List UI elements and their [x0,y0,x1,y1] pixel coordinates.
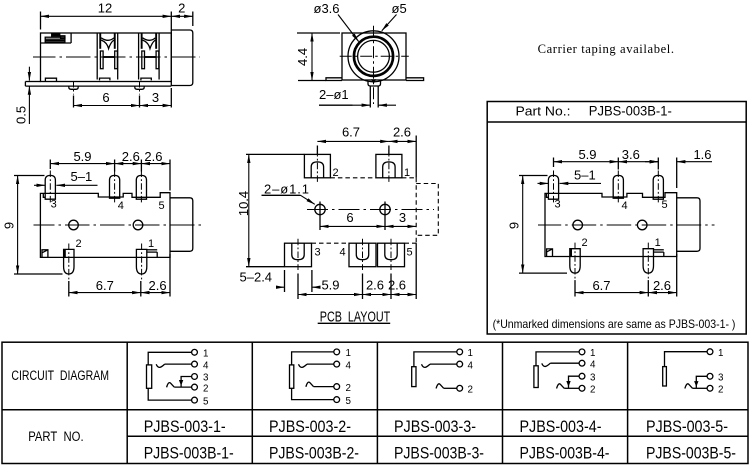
terminal 3 D1 [192,374,198,380]
svg-text:PJBS-003B-4-: PJBS-003B-4- [520,444,610,463]
crosshair centerlines [340,55,409,57]
part number box [487,102,746,335]
centerline [34,224,202,226]
bottom tab [45,78,56,81]
wire t4 D1 [165,363,192,365]
svg-text:12: 12 [98,1,112,16]
svg-text:PJBS-003B-5-: PJBS-003B-5- [646,444,736,463]
svg-text:1: 1 [148,238,154,250]
hole right [637,220,647,230]
wire t4 D4 [550,362,579,364]
wire t1 D5 [665,352,708,367]
svg-text:3: 3 [152,90,159,105]
hole left [573,220,583,230]
svg-text:5.9: 5.9 [73,149,91,164]
pin 3 [548,171,560,211]
dimension 2.6 bottom a [363,274,392,300]
svg-text:9: 9 [2,222,17,229]
dimension 2.6 b [141,149,170,191]
jack sleeve D1 [147,365,152,388]
svg-text:4: 4 [346,360,352,371]
dimension 5.9 [50,149,114,172]
svg-text:2: 2 [203,383,208,394]
contact t2 D5 [685,384,693,389]
svg-text:2: 2 [333,167,339,179]
wire t1 D3 [414,352,457,367]
wire t4 D3 [430,363,457,365]
terminal 1 D4 [579,349,585,355]
barrel outer circle [348,31,399,82]
dimension 6.7 [575,278,648,297]
barrel (side view) [171,30,193,86]
pin 5 [136,171,164,213]
contact arrow D1 [179,380,183,386]
centerline [33,56,200,58]
svg-text:0.5: 0.5 [14,106,29,124]
svg-text:PJBS-003B-3-: PJBS-003B-3- [394,444,484,463]
contact t4 D4 [542,363,551,366]
dimension 0.5 [14,67,30,124]
corner step at pin 3 B [546,193,548,197]
svg-text:2: 2 [590,385,595,396]
svg-text:2: 2 [346,383,351,394]
svg-text:PJBS-003-5-: PJBS-003-5- [646,417,728,436]
terminal 2 D3 [457,385,463,391]
connector body (side view) [41,33,172,82]
dimension 6.7 [69,278,141,297]
contact t4 D1 [156,364,165,367]
pin 2 [64,238,82,281]
svg-text:2.6: 2.6 [122,149,140,164]
svg-text:2.6: 2.6 [366,278,384,293]
dashed outline bottom [312,242,350,244]
pin 1 [136,238,157,281]
svg-text:PJBS-003-2-: PJBS-003-2- [269,417,351,436]
dimension 12 [41,1,172,30]
svg-text:3: 3 [554,199,560,211]
wire t2 D4 [564,387,579,389]
terminal 1 D5 [707,349,713,355]
terminal 2 D1 [192,384,198,390]
svg-text:1: 1 [468,348,473,359]
terminal 5 D1 [192,397,198,403]
centerline [538,224,715,226]
svg-text:PJBS-003-3-: PJBS-003-3- [394,417,476,436]
svg-text:4: 4 [203,360,209,371]
svg-text:ø5: ø5 [392,1,407,16]
body outline (bottom view) [40,193,170,258]
wire t3 D4 [569,376,580,388]
corner step at pin 3 [43,193,45,197]
inner circle [358,40,390,72]
contact slot 2 [139,33,160,80]
pin 5 [653,171,667,212]
wire t1 D4 [536,352,579,366]
body outline (bottom view B) [545,193,677,257]
svg-text:2.6: 2.6 [388,278,406,293]
svg-text:4: 4 [118,200,124,212]
svg-text:4: 4 [468,360,474,371]
svg-text:10.4: 10.4 [236,191,251,216]
dimension 3.6 [618,147,658,170]
title pcb layout [318,308,391,325]
top extension line [246,153,304,155]
dimension 2 [171,1,193,27]
barrel (bottom view) [170,198,193,252]
svg-text:4: 4 [340,247,346,259]
svg-text:1: 1 [718,348,723,359]
dimension 6.7 [317,125,389,155]
table frame [2,342,748,463]
svg-text:PJBS-003B-1-: PJBS-003B-1- [144,444,234,463]
terminal 1 D1 [192,349,198,355]
svg-text:2: 2 [468,385,473,396]
svg-text:5: 5 [159,200,165,212]
dimension 3 [140,88,172,108]
svg-text:5: 5 [661,199,667,211]
hole right [133,220,143,230]
svg-text:5: 5 [407,247,413,259]
mounting flange [25,82,171,87]
jack sleeve D4 [534,366,538,388]
dimension 2-o1 [319,87,396,105]
jack sleeve D2 [290,365,294,388]
svg-text:PJBS-003-1-: PJBS-003-1- [144,417,226,436]
svg-text:2: 2 [581,237,587,249]
terminal 4 D1 [192,361,198,367]
dimension 5.9 bottom [298,274,363,300]
circuit diagram 2 [290,348,352,407]
svg-text:3: 3 [590,372,596,383]
svg-text:5–2.4: 5–2.4 [240,270,273,285]
contact tip mark [371,79,376,84]
dimension 1.6 [645,147,712,188]
svg-text:Carrier taping availabel.: Carrier taping availabel. [538,42,675,56]
dimension 2.6 [115,149,142,172]
svg-text:2: 2 [178,1,185,16]
svg-text:5–1: 5–1 [574,168,596,183]
svg-text:6: 6 [346,210,353,225]
circuit diagram 1 [147,349,210,408]
dimension 5-1 [34,169,98,185]
svg-text:3: 3 [315,247,321,259]
pin 4 [613,171,627,213]
svg-text:5: 5 [203,396,209,407]
svg-text:Part No.:: Part No.: [516,104,571,119]
svg-text:PJBS-003-4-: PJBS-003-4- [520,417,602,436]
pad 4 [340,239,377,270]
terminal 2 D2 [334,384,340,390]
svg-text:(*Unmarked dimensions are same: (*Unmarked dimensions are same as PJBS-0… [493,318,736,331]
svg-text:4: 4 [590,359,596,370]
contact arrow D4 [566,381,570,387]
dimension 5-1 [538,168,602,184]
dimension 9 [507,176,568,274]
foot detail [547,249,553,256]
circuit diagram 5 [663,348,724,396]
svg-text:2: 2 [718,385,723,396]
pad 3 [285,239,321,270]
svg-text:3: 3 [203,373,209,384]
svg-text:3.6: 3.6 [622,147,640,162]
contact t2 D2 [306,382,314,387]
svg-text:9: 9 [507,222,522,229]
dimension 3 [385,210,416,227]
svg-text:3: 3 [399,210,406,225]
dimension 9 [2,176,63,275]
dimension 4.4 [295,33,340,81]
pad 2 [304,150,338,182]
body (front view) [342,33,406,80]
hole left [69,220,79,230]
svg-text:4: 4 [621,200,627,212]
dashed outline top [330,177,376,179]
svg-text:2–ø1: 2–ø1 [319,87,349,102]
hole right [380,202,390,231]
svg-text:2: 2 [75,238,81,250]
leader o5 [382,1,407,31]
svg-text:6.7: 6.7 [96,278,114,293]
wire t2 D1 [174,386,191,388]
svg-text:PART NO.: PART NO. [28,429,83,444]
svg-text:1: 1 [590,348,595,359]
pin 3 [45,171,57,211]
svg-text:3: 3 [51,199,57,211]
circuit diagram 3 [412,348,474,395]
contact t4 D2 [299,364,308,367]
wire t1 D1 [148,352,191,365]
dimension 2.6 [389,125,416,178]
wire t2 D2 [314,386,334,388]
contact arrow D5 [694,381,698,387]
terminal 3 D4 [579,373,585,379]
contact t2 D1 [167,383,175,388]
svg-text:PJBS-003B-2-: PJBS-003B-2- [269,444,359,463]
hole ring (thick) [354,37,393,76]
terminal 4 D4 [579,360,585,366]
pad 5 [378,239,413,270]
contact slot 1 [97,33,118,80]
jack sleeve D5 [663,367,667,386]
left flange [326,78,342,81]
peg 2 [135,81,144,95]
svg-text:5–1: 5–1 [71,169,93,184]
dimension 10.4 [236,154,284,266]
terminal 2 D5 [707,385,713,391]
wire t2 D5 [693,387,708,389]
svg-text:ø3.6: ø3.6 [314,1,340,16]
contact t4 D3 [422,364,431,367]
centerline [307,209,434,211]
svg-text:CIRCUIT DIAGRAM: CIRCUIT DIAGRAM [11,368,109,383]
pin 1 [643,237,664,280]
svg-text:2.6: 2.6 [393,125,411,140]
contact t2 D4 [557,384,565,389]
barrel (bottom view B) [677,198,700,252]
svg-text:5: 5 [346,396,352,407]
dashed right edge [415,178,417,243]
contact t2 D3 [436,384,444,389]
svg-text:1: 1 [346,348,351,359]
foot detail [42,250,48,257]
terminal 1 D2 [334,349,340,355]
dimension 2.6 bottom [141,254,170,297]
dimension 2.6 [648,254,676,297]
terminal 3 D5 [707,373,713,379]
svg-text:2–ø1.1: 2–ø1.1 [264,182,310,197]
terminal 4 D3 [457,361,463,367]
dimension 2-o1.1 [262,182,315,205]
svg-text:1.6: 1.6 [693,147,711,162]
wire t4 D2 [307,363,334,365]
dimension 6 [74,90,140,108]
dimension 6 [320,210,385,227]
svg-text:1: 1 [203,349,208,360]
svg-text:PJBS-003B-1-: PJBS-003B-1- [589,104,672,119]
pin 2 [570,237,588,280]
svg-text:1: 1 [655,237,661,249]
wire t3 D1 [181,377,191,388]
wire t3 D5 [696,376,707,388]
svg-text:6.7: 6.7 [592,278,610,293]
svg-text:6.7: 6.7 [342,125,360,140]
svg-text:1: 1 [404,167,410,179]
svg-text:5.9: 5.9 [578,147,596,162]
wire t1 D2 [292,352,334,365]
svg-text:4.4: 4.4 [295,48,310,66]
circuit diagram 4 [534,348,596,395]
wire t5 D2 [292,388,334,399]
hole left [315,202,325,231]
dashed barrel [416,184,438,236]
svg-text:2.6: 2.6 [653,278,671,293]
dimension 5-2.4 [240,270,320,293]
dimension 2.6 bottom b [388,243,416,299]
terminal 2 D4 [579,385,585,391]
terminal 1 D3 [457,349,463,355]
wire t5 D1 [148,388,191,400]
bottom tab [368,81,381,86]
peg 1 [69,81,78,95]
svg-text:2.6: 2.6 [144,149,162,164]
dimension 5.9 [554,147,619,170]
terminal 5 D2 [334,397,340,403]
right flange [406,78,424,81]
terminal pocket detail [41,33,72,43]
svg-text:3: 3 [718,373,724,384]
svg-text:6: 6 [102,90,109,105]
wire t2 D3 [444,387,457,389]
svg-text:2.6: 2.6 [149,278,167,293]
leader o3.6 [314,1,359,42]
pin 4 [110,171,124,213]
terminal 4 D2 [334,361,340,367]
pad 1 [376,150,410,182]
svg-text:5.9: 5.9 [321,278,339,293]
jack sleeve D3 [412,367,416,387]
pin lines [369,86,371,108]
